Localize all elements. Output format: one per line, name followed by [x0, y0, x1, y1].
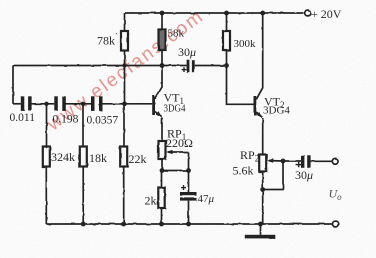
- wire: VT2 emitter down to RP2: [262, 118, 264, 155]
- wire: 324k bottom lead, corner of ground rail: [45, 167, 47, 225]
- junction: top rail at 58k: [160, 11, 165, 16]
- capacitor 30u coupling (interstage): [187, 60, 195, 72]
- ground: [245, 224, 275, 238]
- polarity + of 47u: [181, 185, 186, 190]
- wire: 18k hanger from C2-C3 node: [82, 104, 84, 147]
- potentiometer RP2 body: [259, 155, 266, 172]
- junction: rail at ground: [258, 222, 263, 227]
- wire: output cap to output terminal: [311, 160, 333, 162]
- junction: rail at 22k: [121, 222, 126, 227]
- potentiometer RP2 wiper arrow: [266, 159, 283, 163]
- wire: 300k bottom lead to coupling node: [226, 51, 228, 66]
- junction: top rail at 300k: [224, 11, 229, 16]
- wire: 22k bottom lead to ground rail: [123, 167, 125, 225]
- junction: VT1 base node: [122, 101, 127, 106]
- wire: 300k top lead from rail: [226, 13, 228, 31]
- wire: C1 to C2: [31, 103, 54, 105]
- wire: left end into C1: [13, 103, 21, 105]
- junction: rail at 47u: [186, 222, 191, 227]
- wire: top +20V supply rail: [125, 12, 304, 14]
- resistor 324k body: [43, 147, 50, 167]
- transistor VT2: [254, 87, 264, 117]
- wire: RP2 bottom to ground rail: [262, 190, 264, 225]
- resistor 300k body: [223, 31, 230, 51]
- resistor 78k body: [121, 31, 128, 51]
- polarity + of 30u interstage: [182, 67, 187, 72]
- junction: feedback at 58k (VT1 collector node): [160, 63, 165, 68]
- junction: 47u top node: [186, 168, 191, 173]
- resistor 22k body: [120, 147, 127, 167]
- wire: 47u top lead: [188, 171, 190, 193]
- junction: feedback at 78k line: [122, 63, 126, 67]
- wire: from base node down to 22k: [123, 104, 125, 147]
- wire: 58k top lead from rail: [161, 13, 163, 30]
- junction: top rail at VT2 collector: [260, 11, 265, 16]
- capacitor 30u output: [301, 155, 311, 168]
- potentiometer RP1 wiper arrow: [166, 150, 189, 171]
- terminal output top: [332, 158, 338, 164]
- resistor 2k body: [158, 188, 164, 209]
- resistor 18k body: [80, 147, 87, 167]
- wire: coupling node down to VT2 base elbow: [227, 66, 254, 105]
- wire: wiper node to output cap: [283, 160, 301, 162]
- wire: 58k bottom lead to collector node: [161, 50, 163, 66]
- wire: RP2 bottom lead: [262, 172, 264, 190]
- wire: 47u bottom lead to ground rail: [188, 201, 190, 224]
- junction: coupling node at 300k: [224, 63, 229, 68]
- wire: junction row between RP1/2k and 47u: [162, 170, 189, 172]
- junction: RP2 bottom node: [260, 187, 265, 192]
- wire: feedback line from left column to coupling cap: [13, 65, 187, 67]
- wire: bottom ground rail: [46, 223, 332, 225]
- capacitor C47u: [180, 192, 197, 201]
- junction: C2-C3 node: [81, 102, 85, 106]
- capacitor C3 0.0357: [91, 96, 103, 111]
- wire: RP2 wiper down-loop to bottom of RP2: [263, 161, 283, 190]
- junction: RP1 bottom node: [160, 168, 165, 173]
- wire: 78k top lead from rail: [124, 13, 126, 31]
- capacitor C2 0.198: [54, 96, 66, 111]
- wire: VT1 emitter to RP1: [161, 118, 163, 142]
- junction: RP2 wiper node: [281, 159, 286, 164]
- transistor VT1: [152, 87, 162, 118]
- capacitor C1 0.011: [21, 96, 32, 111]
- junction: rail at 2k: [159, 222, 164, 227]
- wire: VT2 collector line from rail: [262, 13, 264, 88]
- wire: 30u to 300k node: [195, 65, 227, 67]
- potentiometer RP1 body: [159, 141, 166, 159]
- junction: rail at 18k: [81, 222, 86, 227]
- resistor 58k body: [159, 30, 166, 51]
- wire: 2k top lead: [161, 171, 163, 188]
- wire: 18k bottom lead to ground rail: [82, 167, 84, 225]
- wire: collector node down to VT1 collector: [161, 66, 163, 88]
- wire: C2 to C3: [66, 103, 92, 105]
- wire: 2k bottom lead to ground rail: [161, 208, 163, 224]
- wire: RP1 bottom lead to emitter junction row: [161, 159, 163, 171]
- wire: C3 to VT1 base: [102, 103, 152, 105]
- wire: 324k hanger from C1-C2 node: [46, 104, 48, 147]
- wire: 78k bottom lead down to feedback node: [124, 51, 126, 66]
- wire: vertical from feedback node to VT1 base node: [124, 66, 126, 105]
- polarity + of output 30u: [296, 162, 303, 167]
- terminal +20V: [305, 10, 311, 16]
- wire: left feedback vertical: [12, 66, 14, 104]
- terminal output bottom: [333, 221, 339, 227]
- junction: C1-C2 node: [44, 102, 48, 106]
